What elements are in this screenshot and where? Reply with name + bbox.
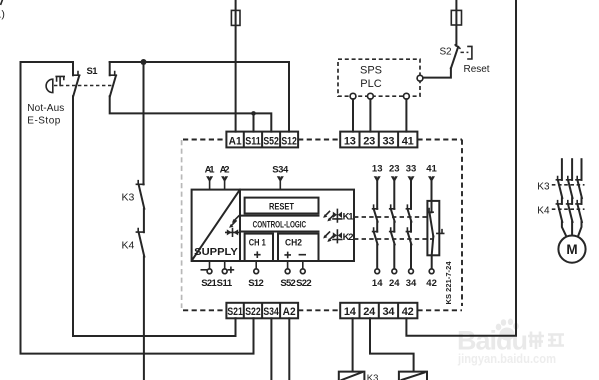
svg-text:23: 23 — [389, 164, 400, 175]
relay internal main box — [192, 190, 354, 261]
svg-text:Not-Aus: Not-Aus — [27, 103, 64, 114]
contactor K4 main contacts — [537, 201, 584, 222]
CONTROL-LOGIC band — [240, 216, 319, 232]
wire top rail from S1 to S12 — [110, 62, 289, 132]
svg-text:24: 24 — [389, 278, 400, 289]
svg-text:34: 34 — [383, 306, 396, 318]
svg-text:33: 33 — [406, 164, 417, 175]
wire SPS to terminal 41 — [405, 99, 407, 131]
wire SPS to terminal 13 — [352, 99, 354, 131]
contact column 13-14 (internal) — [372, 164, 383, 290]
wire S1 ch1 down and across to S21 — [73, 96, 236, 336]
contact column 41-42 NC (internal, guided) — [426, 164, 443, 290]
wire S34 down off edge — [270, 318, 272, 380]
svg-text:A1: A1 — [205, 164, 216, 175]
e-stop mushroom head symbol — [46, 76, 64, 92]
node terminal SPS to S2 — [417, 75, 423, 81]
node terminal SPS to 23 — [368, 93, 374, 99]
svg-text:41: 41 — [426, 164, 437, 175]
relay dashed enclosure right edge — [461, 140, 463, 307]
svg-text:S34: S34 — [272, 164, 289, 175]
wire 24 to coil K4 — [370, 318, 414, 371]
svg-text:S22: S22 — [245, 306, 261, 318]
pin S11 (internal) — [217, 261, 234, 289]
terminal strip top-left A1 S11 S52 S12 — [226, 132, 298, 148]
contact K3 (left feedback chain) — [122, 181, 145, 209]
supply surge suppressor symbol — [226, 229, 239, 237]
node terminal SPS to 41 — [404, 93, 410, 99]
svg-text:K3: K3 — [122, 192, 135, 204]
svg-text:S34: S34 — [263, 306, 279, 318]
svg-text:K3: K3 — [367, 373, 379, 380]
pin A1 (internal) — [205, 164, 216, 189]
svg-text:S11: S11 — [245, 135, 261, 147]
wire junction down to K3 contact — [143, 62, 145, 184]
svg-text:S21: S21 — [201, 278, 217, 289]
contact column 23-24 (internal) — [389, 164, 400, 290]
svg-text:K2: K2 — [343, 232, 354, 243]
svg-text:K4: K4 — [122, 240, 135, 252]
contact column 33-34 (internal) — [406, 164, 417, 290]
svg-text:1): 1) — [0, 9, 5, 21]
wire E-stop loop: top bar, left rail, bottom to S22 — [21, 62, 254, 354]
relay K2 coil symbol and label — [323, 230, 354, 243]
svg-text:42: 42 — [402, 306, 414, 318]
RESET box — [245, 198, 319, 214]
coil K3 (cut at bottom) — [339, 372, 379, 380]
label fragment 1) top-left — [0, 1, 5, 21]
fuse F2 — [451, 10, 461, 25]
mechanical link dashed K1 — [354, 216, 427, 218]
mechanical link dashed S1 — [54, 85, 112, 87]
svg-text:CH 1: CH 1 — [249, 237, 267, 248]
svg-text:CH2: CH2 — [285, 237, 302, 248]
svg-text:42: 42 — [426, 278, 437, 289]
relay dashed enclosure bottom edge — [183, 309, 462, 311]
coil K4 (cut at bottom) — [399, 372, 427, 380]
svg-text:S2: S2 — [440, 47, 452, 58]
wire S1 ch2 to S11/S52 — [110, 96, 272, 131]
wire right return rail down to 42 wire — [406, 0, 516, 336]
node terminal SPS to 13 — [350, 93, 356, 99]
mechanical link dashed K2 — [354, 238, 433, 240]
svg-text:24: 24 — [363, 306, 376, 318]
svg-text:13: 13 — [372, 164, 383, 175]
svg-text:M: M — [566, 242, 577, 257]
pin S12 (internal) — [248, 261, 264, 289]
wire SPS to terminal 23 — [369, 99, 371, 131]
svg-text:K4: K4 — [537, 206, 550, 217]
supply section divider — [239, 190, 241, 261]
contactor K3 main contacts — [537, 177, 584, 204]
svg-text:RESET: RESET — [269, 202, 294, 212]
svg-text:K3: K3 — [537, 181, 550, 192]
SPS PLC box — [338, 59, 420, 96]
wire L+ rail to A1 (through fuse) — [235, 0, 237, 132]
contact S1 channel 2 (right) — [110, 62, 117, 96]
svg-text:13: 13 — [344, 135, 356, 147]
svg-text:23: 23 — [363, 135, 375, 147]
svg-text:A2: A2 — [283, 306, 296, 318]
relay dashed enclosure left edge — [181, 140, 183, 308]
svg-text:S52: S52 — [263, 135, 279, 147]
wire K4 down off bottom edge — [143, 257, 145, 380]
wire reset rail (through fuse F2) — [455, 0, 457, 46]
pin S22 (internal) — [296, 261, 312, 289]
svg-text:S12: S12 — [281, 135, 297, 147]
svg-text:SPS: SPS — [360, 65, 382, 77]
node junction to S11 — [251, 111, 256, 116]
node junction at K3/K4 branch — [141, 59, 147, 65]
relay K1 coil symbol and label — [323, 209, 354, 222]
svg-text:K1: K1 — [343, 211, 355, 222]
supply diagonal — [192, 190, 239, 259]
pin A2 (internal) — [220, 164, 230, 189]
svg-text:CONTROL-LOGIC: CONTROL-LOGIC — [253, 220, 307, 230]
pin S52 (internal) — [280, 261, 296, 289]
relay dashed enclosure top edge — [183, 139, 462, 141]
switch S2 reset pushbutton — [440, 45, 490, 75]
contact K4 (left feedback chain) — [122, 229, 145, 257]
wires to motor — [562, 222, 582, 237]
svg-text:33: 33 — [383, 135, 395, 147]
fuse F1 — [231, 10, 240, 25]
svg-text:14: 14 — [344, 306, 357, 318]
supply LED arrows — [229, 216, 239, 228]
svg-text:Reset: Reset — [464, 64, 490, 75]
svg-text:41: 41 — [402, 135, 414, 147]
terminal strip bottom-right 14 24 34 42 — [340, 303, 417, 319]
wire 14 to coil K3 — [352, 318, 354, 371]
wire stub junction to S11 — [253, 113, 255, 131]
phase line L3 — [581, 159, 583, 180]
contact S1 channel 1 (left) — [73, 62, 80, 96]
motor M — [558, 236, 585, 263]
wire SPS to S2 — [423, 68, 451, 77]
svg-text:14: 14 — [372, 278, 383, 289]
svg-text:34: 34 — [406, 278, 417, 289]
svg-text:S11: S11 — [217, 278, 233, 289]
svg-text:A1: A1 — [229, 135, 242, 147]
svg-text:S1: S1 — [87, 66, 99, 77]
CH2 box — [278, 234, 319, 261]
wire between K3 and K4 — [143, 209, 145, 232]
svg-text:S22: S22 — [296, 278, 312, 289]
svg-text:PLC: PLC — [360, 78, 381, 90]
terminal strip top-right 13 23 33 41 — [340, 132, 417, 148]
terminal strip bottom-left S21 S22 S34 A2 — [226, 303, 298, 319]
wire A2 down off edge — [288, 318, 290, 380]
phase line L1 — [561, 159, 563, 180]
svg-text:S21: S21 — [227, 306, 243, 318]
svg-text:E-Stop: E-Stop — [27, 115, 60, 126]
svg-text:jingyan.baidu.com: jingyan.baidu.com — [457, 351, 556, 366]
svg-text:A2: A2 — [220, 164, 230, 175]
svg-text:S12: S12 — [248, 278, 264, 289]
CH1 box — [245, 234, 273, 261]
svg-text:KS 221-7-24: KS 221-7-24 — [444, 261, 453, 305]
pin S21 (internal) — [201, 261, 217, 289]
svg-text:SUPPLY: SUPPLY — [194, 246, 238, 258]
pin S34 (internal) — [272, 164, 289, 189]
phase line L2 — [571, 159, 573, 180]
svg-text:S52: S52 — [280, 278, 296, 289]
